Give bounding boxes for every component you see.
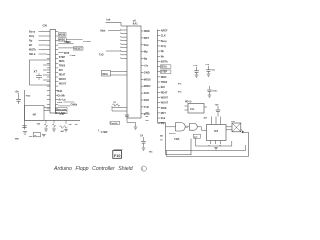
- svg-text:Wr: Wr: [161, 55, 164, 58]
- svg-text:TRK0: TRK0: [59, 64, 66, 67]
- svg-text:SIDE: SIDE: [144, 29, 150, 33]
- svg-text:SIDE: SIDE: [161, 107, 167, 110]
- svg-text:WGAT: WGAT: [59, 83, 67, 86]
- svg-text:Hd: Hd: [146, 120, 150, 122]
- svg-text:CN: CN: [43, 24, 47, 28]
- svg-text:RxD: RxD: [144, 98, 149, 102]
- svg-text:10u: 10u: [211, 70, 215, 72]
- svg-text:Wr: Wr: [146, 116, 149, 118]
- svg-text:100n: 100n: [212, 91, 218, 93]
- svg-text:PD4 5: PD4 5: [185, 100, 192, 103]
- svg-text:RDAT: RDAT: [59, 73, 66, 76]
- svg-text:AREF: AREF: [161, 30, 168, 33]
- svg-text:MOTb: MOTb: [29, 49, 37, 52]
- svg-text:Mb: Mb: [160, 136, 164, 138]
- svg-text:F10: F10: [114, 154, 121, 158]
- svg-text:+5v: +5v: [29, 136, 34, 138]
- svg-text:Mp: Mp: [161, 122, 165, 125]
- svg-text:Dsk: Dsk: [144, 43, 149, 47]
- svg-text:Wr: Wr: [29, 44, 32, 47]
- svg-text:WDAT: WDAT: [161, 96, 169, 99]
- svg-text:STEP: STEP: [161, 71, 168, 74]
- svg-text:IC2: IC2: [214, 129, 219, 133]
- svg-text:IDX: IDX: [161, 86, 165, 89]
- svg-text:4.7kW: 4.7kW: [101, 131, 109, 134]
- svg-text:+5v: +5v: [193, 65, 198, 67]
- svg-text:Dcly: Dcly: [29, 35, 35, 38]
- svg-text:10k: 10k: [37, 124, 41, 126]
- svg-text:A-B: A-B: [60, 113, 65, 116]
- svg-text:Mb: Mb: [72, 55, 76, 57]
- svg-text:Dr: Dr: [161, 139, 164, 142]
- svg-text:TxD: TxD: [99, 53, 104, 56]
- svg-text:LVL: LVL: [190, 108, 195, 111]
- svg-text:MOSI: MOSI: [144, 77, 151, 81]
- svg-text:Ubat: Ubat: [100, 30, 106, 33]
- svg-text:GND: GND: [144, 70, 150, 74]
- svg-text:+5v: +5v: [231, 121, 235, 123]
- svg-text:WDAT: WDAT: [59, 78, 67, 81]
- svg-text:Busy: Busy: [161, 40, 168, 43]
- svg-text:DIRb: DIRb: [59, 60, 65, 63]
- svg-text:TxD: TxD: [144, 105, 149, 109]
- svg-text:Mp: Mp: [144, 50, 148, 54]
- svg-text:REG: REG: [103, 73, 108, 76]
- svg-text:Jw: Jw: [69, 124, 72, 126]
- svg-text:ETXDC: ETXDC: [83, 41, 91, 43]
- svg-text:MISO: MISO: [144, 84, 151, 88]
- svg-text:DIRb: DIRb: [161, 76, 167, 79]
- svg-text:Arduino Flopp Controller Shiel: Arduino Flopp Controller Shield: [53, 166, 134, 172]
- svg-text:PB5: PB5: [26, 96, 31, 98]
- svg-text:INT0: INT0: [64, 52, 70, 55]
- svg-text:CLK: CLK: [161, 35, 166, 38]
- svg-text:XT: XT: [34, 70, 38, 74]
- svg-text:STEP: STEP: [59, 56, 66, 59]
- svg-text:WGAT: WGAT: [161, 102, 169, 105]
- svg-text:4k7: 4k7: [61, 130, 65, 133]
- svg-text:KA1: KA1: [133, 23, 138, 26]
- svg-text:SELb: SELb: [161, 66, 168, 69]
- svg-text:xt: xt: [114, 101, 116, 104]
- svg-text:Rp: Rp: [29, 40, 33, 43]
- svg-text:Bp: Bp: [144, 57, 148, 61]
- svg-text:L30k: L30k: [57, 102, 63, 104]
- svg-text:+5v: +5v: [215, 105, 220, 107]
- svg-text:Dsk: Dsk: [161, 117, 166, 120]
- svg-text:1: 1: [142, 167, 144, 171]
- svg-text:Rp: Rp: [161, 50, 165, 53]
- svg-text:Ck Wk: Ck Wk: [58, 94, 66, 97]
- svg-text:RDY: RDY: [161, 112, 167, 115]
- svg-text:PwrGd: PwrGd: [110, 123, 118, 125]
- svg-text:hdr: hdr: [107, 18, 111, 21]
- svg-text:DsCol: DsCol: [169, 133, 176, 135]
- svg-text:SELb: SELb: [29, 53, 36, 56]
- svg-text:Pr2: Pr2: [178, 92, 182, 94]
- svg-text:Pr1: Pr1: [178, 84, 182, 86]
- svg-text:wIn: wIn: [15, 139, 19, 141]
- svg-text:Busy: Busy: [29, 31, 36, 34]
- svg-text:RxD: RxD: [58, 90, 63, 93]
- svg-text:CkWk: CkWk: [71, 103, 78, 106]
- svg-text:TRK0: TRK0: [161, 81, 168, 84]
- svg-text:Wb: Wb: [149, 152, 153, 154]
- svg-text:+5v: +5v: [144, 64, 149, 68]
- svg-text:RDAT: RDAT: [161, 91, 168, 94]
- svg-text:SCK: SCK: [144, 91, 150, 95]
- svg-text:C4: C4: [140, 135, 144, 138]
- svg-text:4k7: 4k7: [204, 117, 208, 120]
- svg-text:MOTb: MOTb: [161, 60, 168, 63]
- svg-text:SCK: SCK: [66, 42, 71, 44]
- svg-text:4k7: 4k7: [33, 114, 38, 117]
- svg-text:+5v: +5v: [205, 64, 210, 66]
- svg-text:Jw: Jw: [75, 124, 78, 126]
- svg-text:7406: 7406: [174, 138, 180, 141]
- svg-text:IDX: IDX: [59, 69, 63, 72]
- svg-text:RDY: RDY: [144, 36, 150, 40]
- svg-text:Dcly: Dcly: [161, 45, 167, 48]
